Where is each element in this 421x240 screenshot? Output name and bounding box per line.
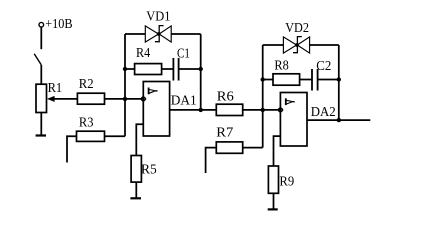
resistor R2 (77, 93, 104, 104)
node R6/R7/feedback junction (261, 108, 265, 112)
resistor R1 (potentiometer body) (36, 84, 47, 112)
wire R6 to DA2 input (243, 109, 281, 111)
wire DA2 output (307, 119, 370, 121)
capacitor C2 (312, 69, 318, 91)
svg-text:R8: R8 (274, 59, 288, 74)
wire DA2 noninverting stub (274, 136, 281, 166)
wire R7 right to node (243, 147, 263, 149)
resistor R4 (135, 64, 162, 75)
ground under R9 (268, 208, 278, 210)
node C2/right vertical (337, 77, 341, 81)
svg-text:R3: R3 (79, 115, 94, 130)
svg-text:R7: R7 (216, 126, 233, 141)
wire R2 to DA1 input (105, 98, 144, 100)
wire node to R8 (263, 79, 273, 81)
resistor R3 (77, 131, 105, 141)
wire VD2 right (310, 44, 339, 46)
wire wiper to R2 (54, 98, 77, 100)
wire R3 right to node (105, 135, 126, 137)
wire C1 to right vertical (179, 68, 201, 70)
svg-text:R6: R6 (217, 89, 234, 104)
wire C2 to right vertical (318, 79, 339, 81)
wire DA1 output (170, 109, 217, 111)
node at R2/R3/feedback junction (123, 97, 127, 101)
wire feedback left vertical (124, 34, 126, 136)
wire VD1 left (125, 33, 145, 35)
node C1/right vertical (199, 67, 203, 71)
node feedback/R8 (261, 77, 265, 81)
diode VD1 (bidirectional suppressor) (145, 26, 171, 42)
svg-text:R9: R9 (279, 174, 294, 189)
wire VD1 right (171, 33, 201, 35)
wire DA1 noninverting stub (136, 124, 143, 155)
chevron inside DA1 (149, 88, 158, 95)
diode VD2 (bidirectional suppressor) (283, 37, 309, 54)
node VD2 center (295, 43, 299, 47)
svg-text:R4: R4 (136, 46, 150, 61)
svg-text:R2: R2 (79, 77, 94, 92)
ground under R5 (130, 197, 141, 199)
wire from terminal down (40, 27, 42, 49)
svg-text:C1: C1 (177, 47, 190, 62)
wire R9 to ground (273, 193, 275, 208)
resistor R6 (216, 104, 242, 115)
op-amp U DA2 (280, 93, 307, 147)
svg-text:DA2: DA2 (311, 105, 336, 120)
node feedback/output (199, 108, 203, 112)
terminal +10B (39, 22, 44, 27)
wire stage2 feedback left vertical (262, 45, 264, 148)
node DA2 inverting input (278, 107, 284, 112)
svg-text:C2: C2 (316, 59, 331, 74)
wire R5 to ground (135, 182, 137, 197)
wire node to R4 (125, 68, 135, 70)
svg-text:VD2: VD2 (285, 21, 309, 36)
R1 wiper arrow (47, 96, 55, 102)
wire stage2 feedback right vertical (338, 45, 340, 120)
svg-text:R5: R5 (141, 163, 157, 178)
node feedback/R4 (123, 67, 127, 71)
wire R4 to C1 (162, 68, 174, 70)
capacitor C1 (173, 58, 178, 81)
chevron inside DA2 (286, 98, 295, 105)
node VD1 center (157, 32, 161, 36)
svg-text:R1: R1 (48, 81, 63, 96)
svg-text:VD1: VD1 (146, 9, 170, 24)
ground under R1 (36, 134, 46, 136)
wire feedback right vertical (200, 34, 202, 110)
wire R7 left stub (206, 148, 217, 173)
wire switch to R1 (40, 65, 42, 84)
resistor R7 (216, 142, 242, 153)
svg-text:DA1: DA1 (171, 94, 197, 109)
resistor R5 (131, 156, 141, 183)
wire R3 left stub (67, 136, 77, 162)
wire VD2 left (263, 44, 284, 46)
switch SA blade (34, 54, 41, 65)
svg-text:+10В: +10В (45, 17, 72, 32)
resistor R8 (273, 74, 300, 85)
node at DA1 inverting input (141, 96, 147, 101)
wire R8 to C2 (300, 79, 312, 81)
wire R1 bottom to ground (40, 113, 42, 135)
op-amp U DA1 (143, 82, 169, 137)
resistor R9 (268, 166, 278, 193)
node feedback/output stage2 (337, 118, 341, 122)
